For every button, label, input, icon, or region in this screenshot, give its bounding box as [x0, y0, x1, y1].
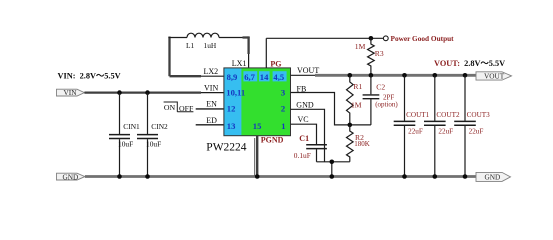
pin number 15: [253, 121, 262, 131]
wire LX2 loop left: [168, 37, 170, 77]
resistor R2: [347, 125, 370, 162]
pin number 1: [281, 121, 285, 131]
net label VIN input voltage: [58, 71, 121, 80]
junction VIN-CIN2: [145, 90, 150, 95]
pin label GND: [296, 101, 314, 110]
svg-text:1M: 1M: [355, 42, 366, 51]
svg-text:COUT3: COUT3: [467, 111, 491, 119]
wire ED stub: [196, 124, 225, 126]
svg-text:EN: EN: [206, 100, 217, 109]
svg-text:VIN: 2.8V～5.5V: VIN: 2.8V～5.5V: [58, 71, 121, 80]
svg-text:PW2224: PW2224: [206, 142, 247, 154]
svg-text:ON: ON: [164, 103, 176, 112]
wire PG horizontal: [266, 37, 383, 39]
svg-text:6,7: 6,7: [244, 72, 255, 82]
svg-text:8,9: 8,9: [227, 72, 238, 82]
pin label PGND: [261, 135, 284, 144]
junction PGND-GND: [255, 174, 260, 179]
wire VC pin: [291, 124, 317, 144]
svg-text:VIN: VIN: [64, 88, 78, 97]
wire VOUT bus: [315, 74, 476, 77]
svg-text:L1: L1: [186, 41, 195, 50]
pin number 4,5: [273, 72, 284, 82]
svg-text:PGND: PGND: [261, 135, 284, 144]
svg-text:14: 14: [260, 72, 269, 82]
junction GND-COUT1: [402, 174, 407, 179]
svg-text:GND: GND: [296, 101, 314, 110]
pin label VC: [298, 115, 309, 124]
svg-text:4,5: 4,5: [273, 72, 284, 82]
svg-text:VOUT: VOUT: [484, 72, 505, 81]
svg-text:GND: GND: [63, 172, 79, 181]
svg-text:22uF: 22uF: [469, 127, 484, 135]
net label VOUT output voltage: [434, 59, 505, 68]
svg-text:22uF: 22uF: [438, 127, 453, 135]
pin number 3: [281, 88, 285, 98]
pin label PG: [270, 59, 281, 68]
junction VOUT-R1: [348, 73, 353, 78]
wire FB: [291, 93, 350, 125]
svg-text:3: 3: [281, 88, 285, 98]
svg-text:10uF: 10uF: [146, 139, 161, 148]
resistor R3: [355, 38, 384, 75]
junction GND-COUT2: [433, 174, 438, 179]
resistor R1: [347, 75, 363, 125]
svg-text:CIN2: CIN2: [151, 122, 168, 131]
capacitor CIN1: [109, 93, 140, 177]
svg-text:10uF: 10uF: [118, 139, 133, 148]
op-amp U1 PW2224 IC body: [224, 68, 291, 136]
svg-text:R3: R3: [375, 49, 384, 58]
inductor L1 1uH: [168, 33, 249, 50]
pin label VIN: [204, 84, 218, 93]
svg-text:Power Good Output: Power Good Output: [391, 34, 455, 43]
svg-text:(option): (option): [375, 100, 398, 108]
svg-text:VC: VC: [298, 115, 309, 124]
net label Power Good Output: [391, 34, 455, 43]
svg-text:0.1uF: 0.1uF: [294, 151, 311, 160]
pin label LX1: [232, 59, 247, 68]
junction FB-R1-R2: [348, 123, 353, 128]
wire VIN rail: [84, 91, 224, 93]
svg-text:COUT2: COUT2: [436, 111, 460, 119]
wire LX2: [170, 75, 225, 77]
svg-text:1uH: 1uH: [204, 41, 217, 50]
wire VC/GND bottom net: [317, 162, 350, 177]
svg-text:VOUT: VOUT: [297, 66, 319, 75]
svg-text:VIN: VIN: [204, 84, 218, 93]
wire GND bus: [85, 175, 476, 178]
svg-text:180K: 180K: [354, 140, 370, 148]
junction VIN-CIN1: [117, 90, 122, 95]
capacitor CIN2: [137, 93, 168, 177]
switch annotation ON/OFF: [164, 102, 194, 113]
junction GND-CIN2: [145, 174, 150, 179]
capacitor COUT2: [424, 75, 460, 176]
svg-text:13: 13: [227, 121, 236, 131]
pin number 8,9: [227, 72, 238, 82]
pin number 10,11: [226, 88, 245, 98]
svg-text:PG: PG: [270, 59, 281, 68]
svg-text:R1: R1: [353, 82, 362, 91]
junction VOUT-COUT3: [463, 73, 468, 78]
svg-text:ED: ED: [206, 116, 217, 125]
svg-text:1: 1: [281, 121, 285, 131]
junction VOUT-COUT2: [433, 73, 438, 78]
junction bottom net: [330, 160, 335, 165]
svg-text:C2: C2: [376, 82, 385, 91]
IC name PW2224: [206, 142, 247, 154]
junction GND-COUT3: [463, 174, 468, 179]
svg-text:15: 15: [253, 121, 262, 131]
wire GND pin: [291, 109, 325, 162]
svg-text:2: 2: [281, 104, 285, 114]
svg-text:CIN1: CIN1: [123, 122, 140, 131]
svg-text:COUT1: COUT1: [406, 111, 430, 119]
svg-text:12: 12: [227, 104, 236, 114]
svg-text:LX1: LX1: [232, 59, 247, 68]
capacitor C1: [294, 134, 327, 162]
svg-text:VOUT: 2.8V～5.5V: VOUT: 2.8V～5.5V: [434, 59, 505, 68]
svg-text:GND: GND: [485, 173, 501, 182]
terminal Power Good: [383, 36, 388, 41]
port tag GND right: [476, 172, 511, 181]
pin label VOUT: [297, 66, 319, 75]
junction PG-R3: [369, 36, 374, 41]
wire EN stub: [196, 108, 225, 110]
port tag GND left: [57, 172, 85, 181]
capacitor C2: [350, 75, 399, 125]
pin label LX2: [204, 67, 219, 76]
pin number 12: [227, 104, 236, 114]
svg-text:22uF: 22uF: [408, 127, 423, 135]
svg-text:C1: C1: [299, 134, 309, 143]
pin number 13: [227, 121, 236, 131]
pin number 6,7: [244, 72, 255, 82]
pin number 2: [281, 104, 285, 114]
junction VOUT-R3C2: [369, 73, 374, 78]
svg-text:10,11: 10,11: [226, 88, 245, 98]
pin number 14: [260, 72, 269, 82]
wire PGND: [255, 136, 258, 177]
junction VOUT-COUT1: [402, 73, 407, 78]
port tag VOUT: [476, 72, 512, 81]
wire LX1 drop: [243, 36, 249, 68]
junction GND-CIN1: [117, 174, 122, 179]
capacitor COUT1: [394, 75, 430, 176]
svg-text:LX2: LX2: [204, 67, 219, 76]
junction GND bus C1: [330, 174, 335, 179]
pin label ED: [206, 116, 217, 125]
pin label EN: [206, 100, 217, 109]
capacitor COUT3: [454, 75, 490, 176]
port tag VIN: [57, 88, 85, 97]
svg-text:1M: 1M: [351, 100, 362, 109]
wire VOUT stub: [291, 74, 316, 76]
wire PG riser: [265, 38, 267, 68]
pin label FB: [297, 84, 307, 93]
